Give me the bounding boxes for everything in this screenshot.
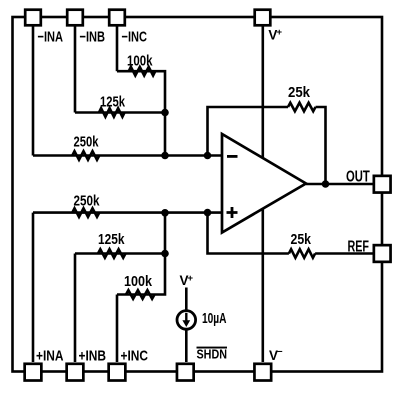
wire 100k bottom row horizontal and rise to node <box>117 254 165 295</box>
resistor 100k (top) <box>129 67 156 76</box>
wire plus-input horizontal (250k row) into op-amp <box>33 211 222 214</box>
wire 25k bottom to REF pin <box>315 252 372 255</box>
node output junction <box>322 180 330 188</box>
wire REF tap down from plus wire and across to 25k bottom <box>208 213 289 254</box>
current source 10uA <box>177 311 196 330</box>
resistor 25k (REF, bottom) <box>289 249 315 258</box>
wire 25k top to output node <box>316 107 326 184</box>
pin -INB <box>67 10 83 26</box>
pin +INB <box>67 364 84 381</box>
wire current source down to SHDN pin <box>185 330 188 362</box>
node junction 250k/plus wire (bottom) <box>161 209 169 217</box>
wire +INB pin stub up to 125k bottom wire <box>74 254 77 363</box>
node junction 100k/125k (top) <box>161 109 169 117</box>
wire node x=165 from 125k junction down to minus wire <box>164 113 167 156</box>
svg-text:+INA: +INA <box>36 348 64 365</box>
wire V+ rail from V+ pin down into op-amp body <box>261 27 264 184</box>
svg-text:REF: REF <box>348 239 370 256</box>
resistor 125k (top) <box>99 108 125 117</box>
op-amp <box>222 134 306 233</box>
svg-text:100k: 100k <box>127 53 153 70</box>
svg-text:250k: 250k <box>74 193 101 210</box>
resistor 250k (top) <box>72 151 99 160</box>
wire node x=165 from 125k bottom junction up to plus wire <box>164 213 167 254</box>
svg-text:125k: 125k <box>100 94 125 111</box>
pin V+ <box>255 10 271 26</box>
wire V+ source label stub down to current source <box>185 288 188 311</box>
resistor 250k (bottom) <box>72 208 99 217</box>
node minus-input feedback tap <box>204 152 212 160</box>
svg-text:−: − <box>277 347 283 358</box>
pin V- <box>254 364 271 381</box>
svg-text:−INB: −INB <box>80 29 106 46</box>
wire op-amp output to OUT pin <box>306 183 373 186</box>
node junction 125k/100k (bottom) <box>161 250 169 258</box>
svg-text:125k: 125k <box>98 231 125 248</box>
wire -INC pin stub down to 100k wire <box>116 27 119 72</box>
wire 100k row horizontal and drop to node at x=165 <box>117 71 165 112</box>
wire 125k row horizontal to node <box>75 111 165 114</box>
svg-text:25k: 25k <box>288 84 311 101</box>
pin -INC <box>109 10 125 26</box>
svg-text:SHDN: SHDN <box>197 347 228 362</box>
svg-text:+INB: +INB <box>79 348 107 365</box>
op-amp minus input symbol <box>227 155 238 158</box>
node junction 250k/minus wire (top) <box>161 152 169 160</box>
label SHDN overline <box>197 347 228 349</box>
wire +INA pin stub up to plus-input wire <box>32 213 35 362</box>
pin REF <box>374 245 391 262</box>
wire V- rail from op-amp body down to V- pin <box>261 185 264 362</box>
resistor 125k (bottom) <box>98 249 126 258</box>
resistor 100k (bottom) <box>126 290 155 299</box>
wire feedback tap up from minus wire and across to 25k <box>208 107 289 156</box>
pin SHDN <box>177 364 194 381</box>
op-amp plus input symbol <box>227 207 238 218</box>
pin +INA <box>25 364 42 381</box>
node plus-input REF tap <box>204 209 212 217</box>
svg-text:+INC: +INC <box>121 348 149 365</box>
svg-text:250k: 250k <box>74 134 99 151</box>
svg-text:100k: 100k <box>124 273 153 290</box>
wire +INC pin stub up to 100k bottom wire <box>116 295 119 363</box>
resistor 25k (feedback, top) <box>288 103 316 112</box>
svg-text:+: + <box>188 273 194 284</box>
svg-text:10µA: 10µA <box>202 311 227 327</box>
svg-text:25k: 25k <box>291 231 312 248</box>
pin -INA <box>25 10 41 26</box>
svg-text:OUT: OUT <box>346 169 370 186</box>
wire 125k bottom row horizontal to node <box>75 252 165 255</box>
svg-text:−INC: −INC <box>122 29 148 46</box>
pin OUT <box>374 176 391 193</box>
wire minus-input horizontal (250k row) into op-amp <box>33 154 222 157</box>
wire -INA pin stub down to minus-input wire <box>32 27 35 156</box>
svg-text:−INA: −INA <box>38 29 64 46</box>
svg-text:+: + <box>277 27 283 38</box>
pin +INC <box>109 364 126 381</box>
wire -INB pin stub down to 125k wire <box>74 27 77 113</box>
